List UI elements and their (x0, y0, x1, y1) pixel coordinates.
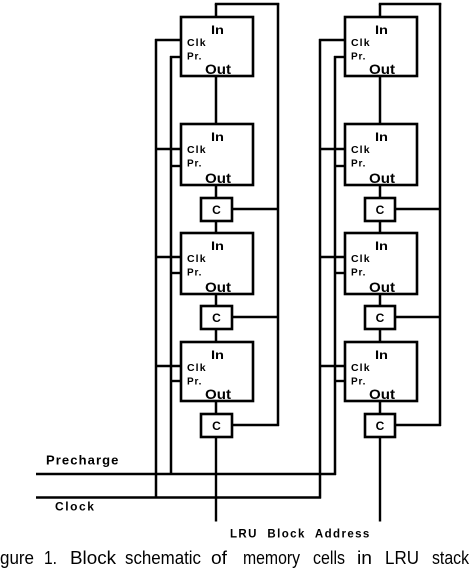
comparator cell CR3 (365, 414, 395, 437)
value label C (CL2) (212, 311, 221, 325)
wire: MR1 Out to MR2 In (379, 76, 382, 124)
memory cell block MR3 (345, 233, 417, 294)
pin label Out (ML2) (205, 170, 231, 186)
pin label Pr. (ML4) (187, 377, 202, 388)
value label C (CL3) (212, 419, 221, 433)
pin label Clk (ML4) (187, 362, 207, 374)
memory cell block ML2 (181, 124, 253, 185)
svg-text:Clk: Clk (187, 362, 207, 374)
wire: column L feedback rises from ML1 In (215, 4, 218, 17)
wire: Pr. input stub to MR3 (334, 272, 345, 274)
comparator cell CR1 (365, 198, 395, 221)
wire: Clk input stub to MR1 (319, 39, 345, 41)
svg-text:Out: Out (369, 61, 395, 77)
pin label In (MR1) (375, 23, 388, 37)
net label LRU Block Address (230, 529, 371, 541)
svg-text:C: C (212, 419, 221, 433)
pin label Pr. (ML1) (187, 52, 202, 63)
pin label Clk (MR2) (351, 144, 371, 156)
svg-text:In: In (375, 348, 388, 362)
pin label Pr. (MR1) (351, 52, 366, 63)
pin label Out (ML4) (205, 386, 231, 402)
svg-text:Out: Out (205, 61, 231, 77)
wire: Pr. input stub to ML1 (170, 56, 181, 58)
svg-text:Out: Out (369, 386, 395, 402)
wire: MR4 Out to comparator CR3 (379, 401, 382, 414)
svg-text:Out: Out (205, 279, 231, 295)
wire: Precharge horizontal line (36, 473, 336, 476)
wire: column L feedback right vertical bus (277, 3, 280, 426)
wire: ML2 Out to comparator CL1 (215, 185, 218, 198)
svg-text:Clk: Clk (351, 37, 371, 49)
wire: Clk input stub to ML3 (155, 256, 181, 258)
wire: ML3 Out to comparator CL2 (215, 294, 218, 306)
pin label In (ML3) (211, 239, 224, 253)
wire: CL3 output to column L feedback bus (232, 424, 279, 427)
pin label Pr. (ML3) (187, 268, 202, 279)
wire: column R Precharge bus (vertical) (334, 56, 337, 475)
pin label In (MR3) (375, 239, 388, 253)
net label Clock (55, 500, 95, 514)
wire: CR1 to MR3 In (379, 221, 382, 233)
pin label Pr. (ML2) (187, 159, 202, 170)
svg-text:Pr.: Pr. (187, 159, 202, 170)
memory cell block ML3 (181, 233, 253, 294)
wire: Clock horizontal line (36, 496, 321, 499)
pin label Clk (ML1) (187, 37, 207, 49)
figure caption (0, 548, 470, 568)
svg-text:Clock: Clock (55, 500, 95, 514)
memory cell block ML4 (181, 342, 253, 401)
pin label Clk (MR1) (351, 37, 371, 49)
svg-text:Clk: Clk (187, 253, 207, 265)
memory cell block MR2 (345, 124, 417, 185)
svg-text:LRU Block Address: LRU Block Address (230, 529, 371, 541)
pin label In (ML4) (211, 348, 224, 362)
wire: column R Clock bus (vertical) (319, 39, 322, 499)
pin label Clk (ML3) (187, 253, 207, 265)
svg-text:Clk: Clk (351, 253, 371, 265)
svg-text:Out: Out (369, 170, 395, 186)
memory cell block MR1 (345, 17, 417, 76)
pin label In (ML2) (211, 130, 224, 144)
svg-text:In: In (375, 239, 388, 253)
svg-text:Clk: Clk (187, 37, 207, 49)
wire: Pr. input stub to ML3 (170, 272, 181, 274)
comparator cell CL2 (201, 306, 232, 329)
wire: Pr. input stub to MR4 (334, 380, 345, 382)
svg-text:Pr.: Pr. (351, 52, 366, 63)
svg-text:Out: Out (205, 386, 231, 402)
wire: Pr. input stub to MR1 (334, 56, 345, 58)
pin label Out (MR1) (369, 61, 395, 77)
wire: CL1 to ML3 In (215, 221, 218, 233)
pin label In (MR2) (375, 130, 388, 144)
memory cell block ML1 (181, 17, 253, 76)
pin label Out (MR4) (369, 386, 395, 402)
pin label Pr. (MR4) (351, 377, 366, 388)
wire: Pr. input stub to ML4 (170, 380, 181, 382)
wire: column R feedback top horizontal segment (379, 3, 441, 6)
svg-text:In: In (211, 130, 224, 144)
value label C (CR3) (376, 419, 385, 433)
wire: Clk input stub to ML2 (155, 148, 181, 150)
pin label Out (ML1) (205, 61, 231, 77)
svg-text:Pr.: Pr. (351, 159, 366, 170)
wire: Clk input stub to ML1 (155, 39, 181, 41)
svg-text:In: In (211, 23, 224, 37)
wire: CR2 to MR4 In (379, 329, 382, 342)
wire: ML4 Out to comparator CL3 (215, 401, 218, 414)
pin label Pr. (MR3) (351, 268, 366, 279)
svg-text:Clk: Clk (351, 362, 371, 374)
svg-text:C: C (212, 203, 221, 217)
pin label Out (MR3) (369, 279, 395, 295)
wire: Clk input stub to MR3 (319, 256, 345, 258)
memory cell block MR4 (345, 342, 417, 401)
pin label Clk (ML2) (187, 144, 207, 156)
pin label In (ML1) (211, 23, 224, 37)
wire: CR2 output to column R feedback bus (395, 316, 441, 319)
wire: CR3 output to column R feedback bus (395, 424, 441, 427)
svg-text:In: In (211, 239, 224, 253)
svg-text:In: In (375, 130, 388, 144)
wire: Pr. input stub to MR2 (334, 165, 345, 167)
wire: Pr. input stub to ML2 (170, 165, 181, 167)
svg-text:In: In (375, 23, 388, 37)
pin label Clk (MR3) (351, 253, 371, 265)
pin label Out (ML3) (205, 279, 231, 295)
svg-text:Clk: Clk (351, 144, 371, 156)
wire: Clk input stub to MR2 (319, 148, 345, 150)
svg-text:Pr.: Pr. (187, 268, 202, 279)
value label C (CR1) (376, 203, 385, 217)
svg-text:Precharge: Precharge (46, 453, 120, 468)
svg-text:Pr.: Pr. (351, 377, 366, 388)
svg-text:Out: Out (205, 170, 231, 186)
wire: column L Clock bus (vertical) (155, 39, 158, 499)
wire: Clk input stub to ML4 (155, 365, 181, 367)
wire: column L feedback top horizontal segment (215, 3, 279, 6)
wire: column R feedback right vertical bus (439, 3, 442, 426)
pin label Clk (MR4) (351, 362, 371, 374)
svg-text:Pr.: Pr. (187, 52, 202, 63)
svg-text:Out: Out (369, 279, 395, 295)
value label C (CL1) (212, 203, 221, 217)
svg-text:Pr.: Pr. (187, 377, 202, 388)
wire: MR2 Out to comparator CR1 (379, 185, 382, 198)
wire: ML1 Out to ML2 In (215, 76, 218, 124)
pin label Out (MR2) (369, 170, 395, 186)
pin label Pr. (MR2) (351, 159, 366, 170)
wire: MR3 Out to comparator CR2 (379, 294, 382, 306)
comparator cell CR2 (365, 306, 395, 329)
comparator cell CL3 (201, 414, 232, 437)
wire: CR1 output to column R feedback bus (395, 208, 441, 211)
wire: column R feedback rises from MR1 In (379, 4, 382, 17)
svg-text:C: C (376, 311, 385, 325)
wire: CL1 output to column L feedback bus (232, 208, 279, 211)
svg-text:Pr.: Pr. (351, 268, 366, 279)
comparator cell CL1 (201, 198, 232, 221)
wire: column L Precharge bus (vertical) (170, 56, 173, 475)
wire: CL2 to ML4 In (215, 329, 218, 342)
wire: column R LRU block address line (below CR3) (379, 437, 381, 522)
net label Precharge (46, 453, 120, 468)
svg-text:Clk: Clk (187, 144, 207, 156)
svg-text:C: C (376, 419, 385, 433)
value label C (CR2) (376, 311, 385, 325)
wire: Clk input stub to MR4 (319, 365, 345, 367)
svg-text:In: In (211, 348, 224, 362)
pin label In (MR4) (375, 348, 388, 362)
svg-text:C: C (376, 203, 385, 217)
wire: column L LRU block address line (below CL3) (215, 437, 217, 522)
wire: CL2 output to column L feedback bus (232, 316, 279, 319)
svg-text:C: C (212, 311, 221, 325)
